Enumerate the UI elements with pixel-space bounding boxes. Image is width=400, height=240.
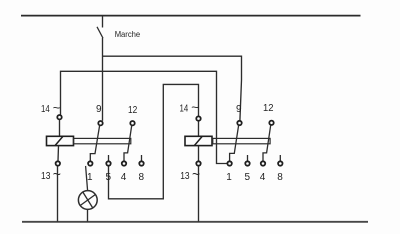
wire K1 14 to coil [59,120,61,137]
svg-text:1: 1 [226,172,232,183]
top supply rail L1 [21,15,361,17]
lamp H1 [78,191,97,210]
K1 contact blade 12-4 [124,126,132,161]
K2 coil box [185,136,212,145]
K2 terminal 4 [261,161,265,165]
svg-text:5: 5 [245,172,251,183]
wire node A to K2 terminal 9 (y=56 branch) [102,56,242,121]
svg-text:Marche: Marche [115,29,141,39]
K2 contact blade 9-1 [230,125,239,160]
K1 coil diagonal [55,136,63,145]
K2 terminal 5 [245,161,249,165]
bottom supply rail N [22,221,368,223]
svg-text:9: 9 [96,104,102,115]
K1 terminal 14 [57,115,61,119]
wire from rail to switch S1 [102,16,104,28]
wire K1 terminal 5 to K2 terminal 14 [109,84,199,198]
K1 coil box [47,136,74,145]
svg-text:4: 4 [121,172,127,183]
K2 terminal 14 [196,116,200,120]
wire y=71 branch to K1 terminal 14 and K2 terminal 1 [61,71,228,163]
wire K1 coil to terminal 13 [57,146,60,161]
svg-text:12: 12 [128,105,138,116]
wire lamp to bottom rail [87,209,89,221]
K2 terminal 1 [227,161,231,165]
lamp H1 cross [80,195,95,206]
switch S1 blade [97,27,103,38]
K2 contact blade 12-4 [263,125,271,161]
wire K2 coil to terminal 13 [198,146,200,161]
K1 terminal 9 [98,121,102,125]
K2 linkage bar [213,138,270,143]
K1 linkage bar [74,138,131,143]
svg-text:14~: 14~ [41,100,61,115]
K1 contact blade 9-1 [90,126,99,161]
svg-text:4: 4 [260,172,266,183]
K1 terminal 13 [56,161,60,165]
wire switch S1 to K1 terminal 9 [102,38,104,121]
K1 terminal 4 [122,161,126,165]
K2 terminal 8 stub [279,155,281,161]
svg-text:5: 5 [106,172,112,183]
K2 terminal 5 stub [247,155,249,161]
K1 terminal 12 [130,121,134,125]
wire K1 13 to bottom rail [57,166,59,222]
svg-text:8: 8 [277,172,283,183]
svg-text:13~: 13~ [180,166,200,182]
svg-text:9: 9 [236,104,242,115]
svg-text:8: 8 [139,172,145,183]
K2 terminal 13 [196,161,200,165]
K2 terminal 8 [278,161,282,165]
K2 terminal 9 [237,121,241,125]
K2 coil diagonal [194,136,202,145]
svg-text:12: 12 [263,103,274,114]
K2 terminal 12 [269,121,273,125]
K1 terminal 1 [88,161,92,165]
wire K2 14 to coil [198,121,200,136]
K1 terminal 5 [106,161,110,165]
K1 terminal 8 stub [141,155,143,161]
K1 terminal 5 stub [108,155,110,161]
svg-text:14~: 14~ [180,100,200,115]
svg-text:1: 1 [87,172,93,183]
wire K1 terminal 1 to lamp [86,166,88,191]
K1 terminal 8 [139,161,143,165]
wire K2 13 to bottom rail [198,166,200,222]
